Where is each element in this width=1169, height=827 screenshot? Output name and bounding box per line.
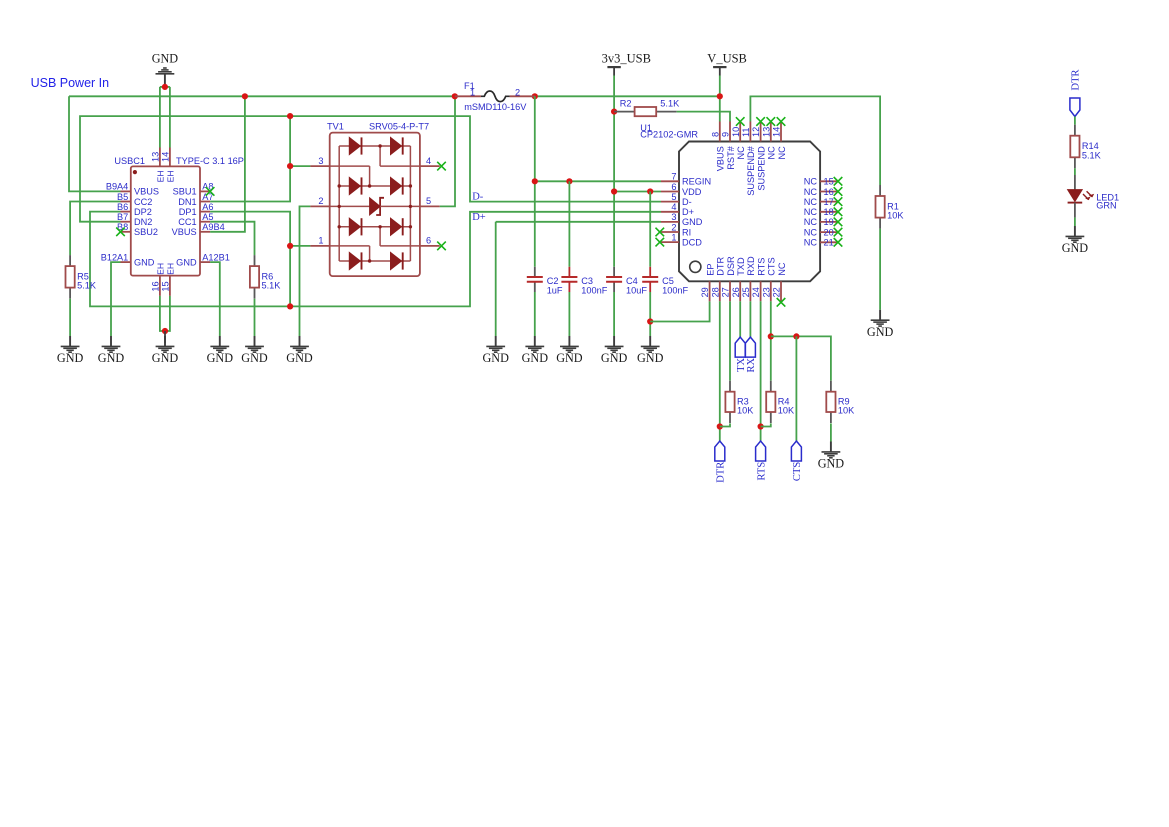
svg-text:GND: GND [601,351,628,365]
no-connect X [777,298,786,307]
wire [879,229,881,310]
no-connect X [834,177,843,186]
wire [613,292,615,336]
wire [1074,117,1076,125]
svg-text:SBU2: SBU2 [134,227,158,237]
wire [164,84,166,87]
wire [770,301,772,380]
junction [717,423,723,429]
pin 10 NC [739,122,741,142]
svg-text:1: 1 [318,236,323,246]
junction [717,93,723,99]
wire [739,301,741,337]
svg-text:EH: EH [165,263,175,275]
wire [830,423,832,441]
svg-text:10K: 10K [737,406,754,416]
svg-text:VBUS: VBUS [716,146,726,171]
diode [391,177,402,194]
ground [152,336,179,365]
svg-text:RI: RI [682,227,691,237]
wire [210,212,290,307]
ground [98,336,125,365]
pin 19 NC [820,221,838,223]
svg-text:B9A4: B9A4 [106,182,128,192]
ground [637,336,664,365]
svg-text:19: 19 [824,217,834,227]
svg-text:GND: GND [556,351,583,365]
svg-text:10: 10 [731,127,741,137]
pin B12A1 GND [121,261,131,263]
diode [391,218,402,235]
svg-text:B6: B6 [117,202,128,212]
svg-text:NC: NC [777,146,787,160]
wire [210,96,245,232]
svg-text:GND: GND [867,325,894,339]
wire [719,96,721,121]
zener TVS diode [330,205,370,207]
svg-text:SRV05-4-P-T7: SRV05-4-P-T7 [369,122,429,132]
wire [169,87,171,148]
svg-text:100nF: 100nF [581,285,607,295]
ground (flipped) [152,51,179,84]
no-connect X [777,117,786,126]
wire [210,116,290,201]
svg-text:CTS: CTS [792,462,803,481]
pin 3 [310,165,329,167]
svg-text:GND: GND [1062,241,1089,255]
wire [69,299,71,336]
svg-text:13: 13 [761,127,771,137]
power flag 3v3_USB [602,51,651,75]
wire [160,86,170,88]
wire [111,262,121,336]
svg-text:EH: EH [155,263,165,275]
wire [771,336,831,380]
svg-text:TYPE-C 3.1 16P: TYPE-C 3.1 16P [176,156,244,166]
diode [349,177,360,194]
svg-text:EH: EH [155,170,165,182]
no-connect X [437,242,446,251]
svg-text:10K: 10K [838,406,855,416]
no-connect X [834,218,843,227]
wire [677,112,730,122]
svg-text:D+: D+ [682,207,694,217]
pin 27 DSR [729,281,731,301]
no-connect X [437,162,446,171]
IC U1 CP2102-GMR [640,122,838,302]
ground [57,336,84,365]
svg-text:5.1K: 5.1K [660,98,680,108]
svg-text:A12B1: A12B1 [202,252,230,262]
ground [1062,226,1089,255]
svg-text:NC: NC [777,262,787,276]
connector USBC1 TYPE-C 3.1 16P [101,148,244,296]
svg-text:B12A1: B12A1 [101,252,129,262]
junction [287,163,293,169]
wire [165,296,170,331]
pin A5 CC1 [200,221,210,223]
resistor R6 [250,255,281,299]
svg-text:REGIN: REGIN [682,177,711,187]
pin 11 SUSPEND# [749,122,751,142]
svg-text:10K: 10K [778,406,795,416]
svg-text:DCD: DCD [682,237,702,247]
svg-text:RXD: RXD [746,256,756,276]
junction [287,303,293,309]
svg-text:B7: B7 [117,212,128,222]
wire [70,202,120,256]
resistor R1 [876,185,905,229]
svg-text:GND: GND [682,217,703,227]
pin 13 NC [770,122,772,142]
net flag DTR [715,441,727,483]
diode [349,218,360,235]
net flag RX [745,337,757,372]
svg-text:USB Power In: USB Power In [31,76,110,90]
svg-text:14: 14 [160,152,170,162]
pin B5 CC2 [121,201,131,203]
svg-text:GND: GND [286,351,313,365]
svg-text:EH: EH [165,170,175,182]
tap pin3 to row2 [330,165,370,167]
svg-text:RTS: RTS [756,258,766,276]
svg-text:NC: NC [804,197,818,207]
pin A6 DP1 [200,211,210,213]
svg-text:NC: NC [804,238,818,248]
svg-text:GND: GND [482,351,509,365]
svg-text:2: 2 [671,222,676,232]
svg-text:1: 1 [671,232,676,242]
svg-text:A5: A5 [202,212,213,222]
ground [522,336,549,365]
svg-text:B5: B5 [117,192,128,202]
no-connect X [834,197,843,206]
diode [391,252,402,269]
no-connect X [834,238,843,247]
no-connect X [116,228,125,237]
pin 26 TXD [739,281,741,301]
svg-text:GND: GND [98,351,125,365]
svg-text:25: 25 [741,287,751,297]
pin B8 SBU2 [121,231,131,233]
pin 15 EH [169,276,171,296]
pin 1 [310,245,329,247]
wire [496,221,661,223]
wire [795,336,797,441]
svg-text:NC: NC [804,227,818,237]
pin 2 [310,205,329,207]
wire [749,301,751,337]
wire [69,95,455,97]
resistor R4 [766,381,795,423]
pin 12 SUSPEND [760,122,762,142]
svg-text:15: 15 [160,281,170,291]
svg-text:DTR: DTR [716,462,727,483]
pin A9B4 VBUS [200,231,210,233]
pin 24 RTS [760,281,762,301]
svg-text:SBU1: SBU1 [173,187,197,197]
svg-text:3v3_USB: 3v3_USB [602,51,651,65]
wire [160,296,165,331]
pin 4 [420,165,440,167]
wire [290,165,310,167]
wire [80,116,661,222]
svg-text:8: 8 [710,132,720,137]
pin 17 NC [820,201,838,203]
pin 16 NC [820,191,838,193]
tap pin1 to row4 [330,245,370,247]
junction [532,178,538,184]
capacitor C3 [561,267,607,296]
no-connect X [767,117,776,126]
pin 28 DTR [719,281,721,301]
svg-text:16: 16 [150,281,160,291]
junction [452,93,458,99]
diode [349,137,360,154]
svg-text:VBUS: VBUS [172,227,197,237]
junction [532,93,538,99]
svg-text:CC2: CC2 [134,197,152,207]
junction [647,188,653,194]
ground [818,442,845,471]
wire [440,96,455,206]
resistor R14 [1070,125,1101,169]
svg-text:10uF: 10uF [626,285,647,295]
no-connect X [206,187,215,196]
svg-text:29: 29 [700,287,710,297]
tap pin4 to row1 [379,146,381,166]
svg-text:17: 17 [824,197,834,207]
wire [210,262,220,336]
power flag V_USB [707,51,747,75]
svg-text:4: 4 [671,202,676,212]
pin 7 REGIN [661,180,679,182]
svg-text:CTS: CTS [767,257,777,275]
svg-text:2: 2 [515,88,520,98]
svg-text:20: 20 [824,227,834,237]
ground [867,310,894,339]
ground [241,336,268,365]
svg-text:6: 6 [671,182,676,192]
svg-text:5.1K: 5.1K [1082,150,1102,160]
no-connect X [756,117,765,126]
resistor R5 [66,255,97,299]
junction [611,109,617,115]
svg-text:GRN: GRN [1096,201,1116,211]
svg-text:D+: D+ [472,212,486,223]
svg-text:NC: NC [736,146,746,160]
svg-text:SUSPEND: SUSPEND [756,146,766,191]
wire [568,181,570,266]
pin 4 D+ [661,211,679,213]
svg-text:GND: GND [152,351,179,365]
junction [793,333,799,339]
svg-text:4: 4 [426,156,431,166]
svg-text:DN1: DN1 [178,197,196,207]
wire [290,245,310,247]
pin 15 NC [820,180,838,182]
ground [556,336,583,365]
svg-text:26: 26 [731,287,741,297]
svg-text:5: 5 [426,196,431,206]
svg-text:GND: GND [134,257,155,267]
pin 2 RI [661,231,679,233]
net flag DTR (right column) [1070,70,1082,117]
pin B9A4 VBUS [121,190,131,192]
ground [601,336,628,365]
svg-text:3: 3 [671,212,676,222]
svg-text:22: 22 [772,287,782,297]
pin 29 EP [709,281,711,301]
wire [650,301,709,321]
svg-text:RX: RX [746,357,757,372]
svg-text:18: 18 [824,207,834,217]
junction [162,328,168,334]
svg-text:11: 11 [741,127,751,137]
pin 5 D- [661,201,679,203]
svg-text:NC: NC [767,146,777,160]
pin 8 VBUS [719,122,721,142]
junction [162,84,168,90]
svg-text:USBC1: USBC1 [114,156,145,166]
junction [647,318,653,324]
wire [210,222,254,255]
svg-text:15: 15 [824,177,834,187]
ground [286,336,313,365]
svg-text:DTR: DTR [1071,70,1082,91]
pin B7 DN2 [121,221,131,223]
junction [611,188,617,194]
wire [254,299,256,336]
pin 3 GND [661,221,679,223]
wire [614,191,661,193]
svg-text:DP1: DP1 [179,207,197,217]
pin A7 DN1 [200,201,210,203]
fuse F1 [455,81,535,112]
wire [535,180,661,182]
internal diode rows [339,145,410,147]
svg-text:GND: GND [152,51,179,65]
wire [729,301,731,380]
junction [287,113,293,119]
svg-text:GND: GND [207,351,234,365]
pin 5 [420,205,440,207]
no-connect X [834,208,843,217]
pin A8 SBU1 [200,190,210,192]
net flag CTS [791,441,803,481]
pin 14 EH [169,148,171,167]
svg-text:A9B4: A9B4 [202,222,224,232]
pin 16 EH [159,276,161,296]
resistor R9 [826,381,855,423]
svg-text:NC: NC [804,177,818,187]
svg-text:F1: F1 [464,81,475,91]
svg-text:NC: NC [804,207,818,217]
svg-text:9: 9 [721,132,731,137]
svg-text:VBUS: VBUS [134,187,159,197]
svg-text:EP: EP [705,264,715,276]
svg-text:NC: NC [804,187,818,197]
LED LED1 GRN [1068,175,1120,218]
no-connect X [834,228,843,237]
pin A12B1 GND [200,261,210,263]
pin 22 NC [780,281,782,301]
junction [566,178,572,184]
svg-text:100nF: 100nF [662,285,688,295]
svg-text:DTR: DTR [716,257,726,276]
svg-text:DN2: DN2 [134,217,152,227]
svg-text:A6: A6 [202,202,213,212]
svg-text:GND: GND [818,457,845,471]
wire [535,95,720,97]
pin 6 VDD [661,191,679,193]
pin 20 NC [820,231,838,233]
svg-text:5.1K: 5.1K [262,281,282,291]
svg-text:5.1K: 5.1K [77,281,97,291]
svg-text:GND: GND [176,257,197,267]
wire [719,76,721,97]
tap pin6 to row3 [379,227,381,246]
wire [613,76,615,267]
svg-text:RTS: RTS [756,462,767,481]
wire [1074,168,1076,175]
wire [568,292,570,336]
pin 25 RXD [749,281,751,301]
no-connect X [656,228,665,237]
svg-text:NC: NC [804,217,818,227]
capacitor C4 [606,267,647,296]
svg-text:7: 7 [671,172,676,182]
svg-text:D-: D- [682,197,692,207]
svg-text:12: 12 [751,127,761,137]
capacitor C5 [642,267,688,296]
svg-text:27: 27 [721,287,731,297]
svg-text:5: 5 [671,192,676,202]
svg-text:TXD: TXD [736,257,746,276]
wire [760,301,762,441]
svg-text:1uF: 1uF [547,285,563,295]
net flag RTS [756,441,768,480]
svg-text:mSMD110-16V: mSMD110-16V [464,102,527,112]
svg-text:24: 24 [751,287,761,297]
svg-text:3: 3 [318,156,323,166]
net flag TX [735,337,747,372]
wire [761,423,771,426]
svg-text:R2: R2 [620,98,632,108]
resistor R2 [614,98,680,116]
wire [750,96,880,185]
pin 23 CTS [770,281,772,301]
svg-text:SUSPEND#: SUSPEND# [746,145,756,195]
svg-text:V_USB: V_USB [707,51,747,65]
wire [159,87,161,148]
svg-text:23: 23 [761,287,771,297]
wire [534,292,536,336]
svg-text:GND: GND [522,351,549,365]
capacitor C2 [527,267,563,296]
svg-text:10K: 10K [887,211,904,221]
pin B6 DP2 [121,211,131,213]
junction [768,333,774,339]
wire [534,96,536,266]
svg-text:TV1: TV1 [327,122,344,132]
ground [207,336,234,365]
pin 14 NC [780,122,782,142]
svg-text:RST#: RST# [726,145,736,169]
diode [349,252,360,269]
svg-text:VDD: VDD [682,187,702,197]
diode [391,137,402,154]
